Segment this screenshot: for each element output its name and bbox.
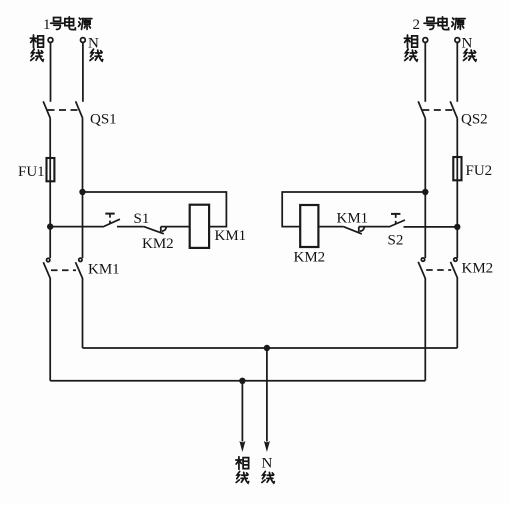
switch QS2 pole B blade [450, 101, 457, 118]
wire: right N KM2 to upper bus [456, 278, 458, 348]
wire: control row from phase to S1 [50, 226, 103, 228]
wire: upper output bus (N) [83, 347, 458, 349]
contactor KM1 main pole B circle [79, 258, 82, 261]
coil KM2 [300, 205, 318, 247]
wire: coil KM2 to KM1 NC contact [318, 226, 343, 228]
wire: left N KM1 to upper bus [82, 278, 84, 348]
wire: left N from terminal to QS1 [82, 43, 84, 102]
switch QS1 pole A blade [43, 101, 50, 118]
svg-text:KM1: KM1 [88, 262, 120, 278]
label: 相线 output [236, 457, 249, 483]
contactor KM1 main pole A blade [43, 262, 50, 278]
svg-text:QS1: QS1 [90, 112, 117, 128]
label: 相线 (phase) left [30, 35, 43, 61]
button S1 blade [103, 219, 120, 227]
contactor KM2 main pole A blade [418, 262, 425, 278]
label: source 2 title 2号电源 [413, 17, 466, 33]
contact KM2 NC blade [144, 227, 164, 234]
svg-text:1: 1 [43, 17, 51, 33]
switch QS2 pole A blade [418, 101, 425, 118]
arrowhead: phase output [239, 441, 245, 452]
label: source 1 title 1号电源 [43, 17, 92, 33]
svg-text:2: 2 [413, 17, 421, 33]
svg-text:S2: S2 [388, 233, 404, 249]
switch QS2 linkage dashed [422, 109, 454, 111]
contactor KM2 main pole A circle [421, 258, 424, 261]
terminal circle: left phase input [48, 38, 53, 43]
contactor KM2 linkage dashed [426, 269, 451, 271]
wire: N output arrow stem [266, 348, 268, 442]
wire: right N terminal to QS2 [456, 43, 458, 102]
coil KM1 [190, 205, 209, 248]
contact KM2 NC seat hook [161, 227, 167, 233]
svg-text:FU1: FU1 [18, 164, 45, 180]
wire: S2 to right N junction [404, 226, 458, 228]
contactor KM2 main pole B circle [454, 258, 457, 261]
label: N线 output [262, 456, 275, 484]
terminal circle: left N input [81, 38, 86, 43]
arrowhead: N output [264, 441, 270, 452]
svg-text:KM2: KM2 [462, 261, 494, 277]
svg-text:KM1: KM1 [337, 211, 369, 227]
contact KM1 NC blade [343, 227, 362, 234]
wire: left phase KM1 to lower bus [49, 278, 51, 381]
button S1 actuator [105, 214, 114, 224]
wire: S1 to KM2 NC contact [117, 226, 144, 228]
svg-text:N: N [262, 456, 273, 472]
wire: left phase QS1 to FU1 [49, 118, 51, 258]
svg-text:KM2: KM2 [142, 236, 174, 252]
fuse FU2 [453, 157, 461, 180]
button S2 actuator [391, 214, 400, 224]
contactor KM1 main pole A circle [47, 258, 50, 261]
contact KM1 NC seat hook [359, 227, 365, 233]
svg-text:FU2: FU2 [466, 163, 493, 179]
wire: left phase from terminal to QS1 [50, 43, 52, 102]
svg-text:QS2: QS2 [461, 112, 488, 128]
svg-text:KM1: KM1 [215, 228, 247, 244]
contactor KM1 main pole B blade [76, 262, 83, 278]
junction: N output tap [264, 345, 270, 351]
svg-text:S1: S1 [134, 211, 150, 227]
junction: right phase to control branch [422, 189, 428, 195]
switch QS1 pole B blade [76, 101, 83, 118]
contactor KM2 main pole B blade [451, 262, 458, 278]
wire: right N QS2 to FU2 [456, 118, 458, 258]
terminal circle: right phase input [423, 38, 428, 43]
contactor KM1 linkage dashed [51, 269, 76, 271]
junction: left phase to control branch [47, 223, 53, 229]
terminal circle: right N input [455, 38, 460, 43]
wire: KM2 NC to coil KM1 [161, 226, 190, 228]
junction: phase output tap [239, 378, 245, 384]
wire: KM1 NC to S2 [359, 226, 389, 228]
wire: right phase terminal to QS2 [424, 43, 426, 102]
fuse FU1 [47, 158, 55, 181]
wire: phase output arrow stem [241, 381, 243, 442]
wire: right control up-link from phase junction to coil KM2 [282, 192, 425, 227]
button S2 blade [389, 220, 405, 227]
label: N线 left [88, 36, 103, 62]
wire: right phase KM2 to lower bus [424, 278, 426, 381]
label: N线 right [462, 36, 477, 62]
wire: coil KM1 right terminal up-link [83, 192, 227, 227]
wire: left N QS1 down to KM1 main contact [82, 118, 84, 258]
junction: right N to control branch [454, 224, 460, 230]
wire: lower output bus (phase) [50, 380, 425, 382]
wire: right phase QS2 down to KM2 main contact [424, 118, 426, 258]
switch QS1 linkage dashed [48, 109, 80, 111]
junction: left N to control branch [79, 189, 85, 195]
svg-text:KM2: KM2 [294, 250, 326, 266]
label: 相线 (phase) right [404, 35, 417, 61]
